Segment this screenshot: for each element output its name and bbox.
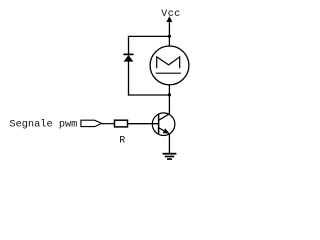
motor M1 (circle) — [150, 46, 189, 85]
wire top horizontal (diode top to rail) — [128, 35, 169, 37]
wire emitter to ground — [168, 134, 170, 154]
Vcc supply arrow — [166, 16, 172, 22]
diode D1 (flyback, cathode up) — [123, 54, 133, 61]
wire Vcc arrow to motor top — [168, 21, 170, 47]
wire diode branch lower — [128, 61, 130, 95]
motor M glyph — [156, 57, 181, 73]
node junction bottom (dot) — [168, 93, 171, 96]
wire diode branch upper — [128, 36, 130, 55]
wire motor bottom to collector — [168, 85, 170, 115]
svg-text:Vcc: Vcc — [161, 9, 181, 20]
node junction top (dot) — [168, 35, 171, 38]
transistor Q1 (NPN) — [152, 113, 175, 136]
svg-text:R: R — [119, 136, 125, 147]
wire flag to resistor — [102, 123, 115, 125]
wire bottom horizontal (diode bottom to rail) — [128, 94, 169, 96]
ground — [163, 154, 177, 159]
svg-text:Segnale pwm: Segnale pwm — [9, 119, 77, 131]
resistor R — [115, 120, 128, 127]
wire resistor to base — [128, 123, 158, 125]
input port flag (pwm) — [81, 120, 102, 126]
